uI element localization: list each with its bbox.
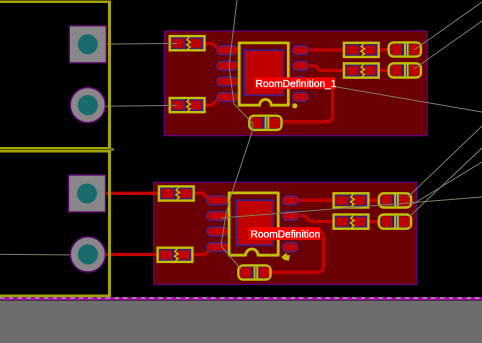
svg-text:RoomDefinition: RoomDefinition [251,230,321,241]
svg-text:RoomDefinition_1: RoomDefinition_1 [256,79,337,90]
